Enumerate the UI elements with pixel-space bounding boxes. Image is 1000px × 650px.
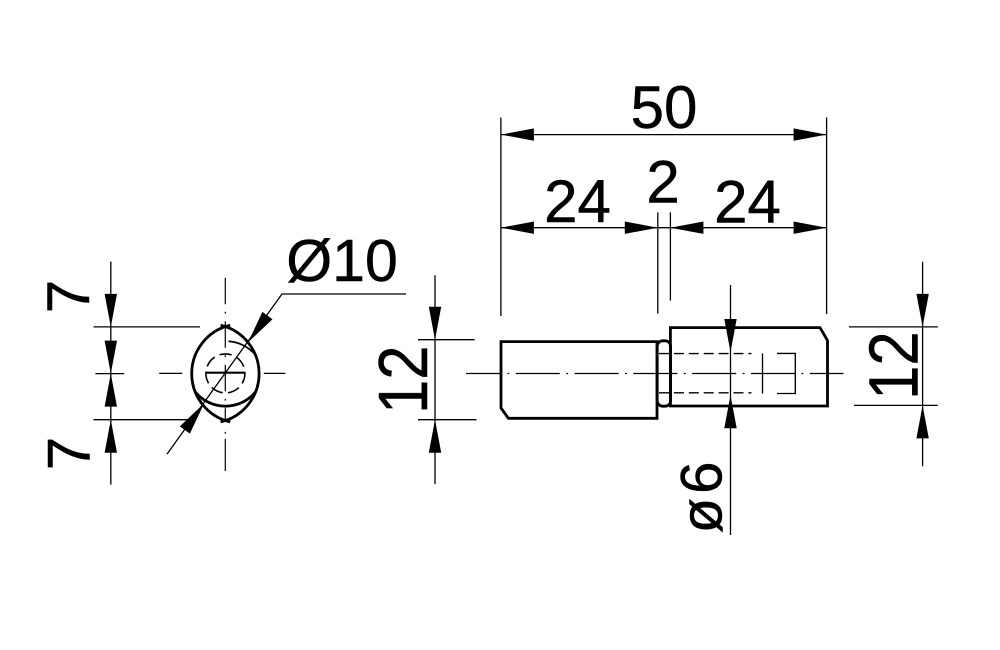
svg-text:7: 7	[35, 437, 102, 470]
svg-text:7: 7	[35, 280, 102, 313]
svg-text:24: 24	[544, 168, 611, 235]
svg-text:24: 24	[714, 169, 781, 236]
svg-text:2: 2	[646, 149, 679, 216]
svg-text:Ø10: Ø10	[286, 228, 398, 294]
svg-text:12: 12	[363, 345, 442, 414]
svg-text:12: 12	[854, 331, 933, 400]
svg-text:ø6: ø6	[670, 458, 735, 534]
svg-text:50: 50	[631, 74, 698, 141]
